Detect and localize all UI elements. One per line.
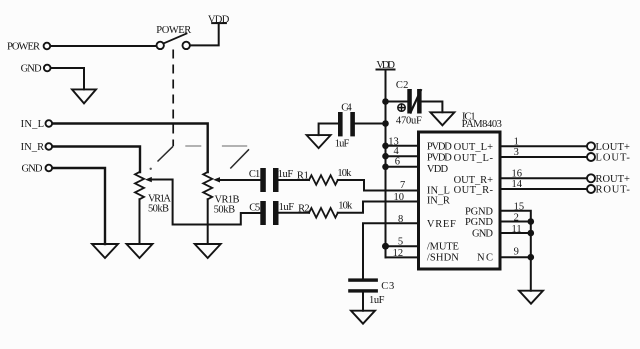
svg-text:2: 2 [514, 212, 519, 223]
svg-text:1uF: 1uF [278, 169, 294, 180]
svg-text:10k: 10k [337, 168, 352, 179]
svg-text:GND: GND [22, 164, 43, 175]
svg-text:8: 8 [398, 214, 403, 225]
svg-text:OUT_L+: OUT_L+ [454, 142, 493, 153]
svg-text:1uF: 1uF [279, 202, 295, 213]
svg-text:11: 11 [512, 224, 522, 235]
svg-text:R1: R1 [297, 171, 309, 182]
svg-text:LOUT+: LOUT+ [596, 142, 630, 153]
svg-text:PVDD: PVDD [427, 141, 452, 152]
svg-text:C4: C4 [341, 103, 352, 114]
svg-text:7: 7 [400, 180, 405, 191]
svg-text:ROUT-: ROUT- [596, 185, 631, 196]
svg-text:5: 5 [398, 236, 403, 247]
svg-text:1uF: 1uF [369, 295, 385, 306]
svg-text:C1: C1 [249, 169, 260, 180]
svg-text:ROUT+: ROUT+ [596, 174, 630, 185]
svg-text:1: 1 [514, 136, 519, 147]
svg-text:10k: 10k [338, 201, 353, 212]
svg-text:6: 6 [395, 157, 400, 168]
svg-text:14: 14 [512, 179, 523, 190]
svg-text:50kB: 50kB [214, 205, 236, 216]
svg-text:PGND: PGND [465, 217, 493, 228]
svg-text:VDD: VDD [427, 164, 449, 175]
svg-text:C2: C2 [396, 80, 409, 91]
svg-text:IN_L: IN_L [21, 119, 44, 130]
svg-text:PAM8403: PAM8403 [462, 119, 502, 130]
svg-text:10: 10 [394, 192, 405, 203]
svg-text:POWER: POWER [7, 42, 40, 53]
svg-text:IN_R: IN_R [427, 196, 450, 207]
svg-text:PGND: PGND [465, 206, 493, 217]
svg-text:OUT_R-: OUT_R- [454, 185, 494, 196]
svg-text:C3: C3 [381, 281, 394, 292]
svg-text:/SHDN: /SHDN [427, 253, 459, 264]
svg-text:R2: R2 [298, 204, 310, 215]
svg-text:OUT_L-: OUT_L- [454, 153, 494, 164]
svg-text:POWER: POWER [156, 25, 191, 36]
svg-text:9: 9 [514, 247, 519, 258]
svg-text:VDD: VDD [208, 15, 230, 26]
svg-text:GND: GND [472, 229, 493, 240]
svg-text:1uF: 1uF [335, 139, 350, 150]
svg-text:LOUT-: LOUT- [596, 153, 631, 164]
svg-text:NC: NC [477, 253, 493, 264]
svg-text:C5: C5 [249, 203, 260, 214]
svg-text:16: 16 [512, 169, 523, 180]
svg-text:15: 15 [514, 201, 525, 212]
svg-text:470uF: 470uF [396, 116, 422, 127]
svg-text:IN_R: IN_R [21, 142, 44, 153]
svg-text:50kB: 50kB [148, 204, 169, 215]
svg-text:VREF: VREF [427, 219, 456, 230]
svg-text:VDD: VDD [376, 60, 395, 71]
svg-text:12: 12 [393, 248, 404, 259]
svg-text:3: 3 [514, 147, 519, 158]
svg-text:/MUTE: /MUTE [427, 242, 459, 253]
svg-text:PVDD: PVDD [427, 153, 452, 164]
svg-text:GND: GND [21, 64, 42, 75]
